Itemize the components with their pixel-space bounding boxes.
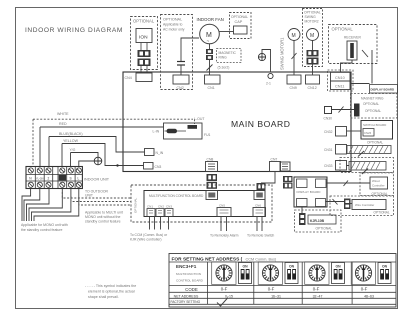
wires MF CN1 group down bbox=[150, 217, 169, 230]
multifunction control board bbox=[144, 191, 265, 217]
svg-text:CN12: CN12 bbox=[308, 86, 317, 90]
connector CN5 MF board bottom bbox=[217, 204, 231, 217]
svg-text:OPTIONAL: OPTIONAL bbox=[134, 197, 138, 213]
svg-text:To Remote Switch: To Remote Switch bbox=[247, 234, 274, 238]
svg-text:48~63: 48~63 bbox=[364, 294, 374, 298]
connector CN1 group MF board bottom bbox=[147, 205, 173, 217]
connector CN10 bbox=[331, 72, 351, 81]
wire display bottom left down bbox=[301, 207, 303, 213]
svg-text:MULTIFUNCTION: MULTIFUNCTION bbox=[176, 272, 201, 276]
svg-text:MULTIFUNCTION CONTROL BOARD: MULTIFUNCTION CONTROL BOARD bbox=[149, 194, 204, 198]
optional box swing motor2 bbox=[303, 9, 323, 67]
svg-text:OPTIONAL: OPTIONAL bbox=[367, 141, 383, 145]
wires dashed to multifunction box bbox=[62, 192, 131, 205]
svg-text:16~31: 16~31 bbox=[271, 294, 281, 298]
optional dashes around CN10 CN11 bbox=[328, 70, 354, 91]
svg-text:- - - - - This symbol indicate: - - - - - This symbol indicates the bbox=[85, 284, 136, 288]
svg-text:OPTIONAL: OPTIONAL bbox=[374, 211, 390, 215]
svg-text:CN2: CN2 bbox=[158, 205, 164, 209]
fuse box FU1 bbox=[164, 123, 211, 139]
wire CN32 to switch board bbox=[347, 130, 362, 132]
swing motor M3 bbox=[307, 29, 319, 41]
svg-text:CN5: CN5 bbox=[219, 204, 225, 208]
magnet ring component bbox=[354, 104, 360, 117]
svg-text:CN8: CN8 bbox=[207, 158, 214, 162]
svg-text:CN3: CN3 bbox=[155, 165, 162, 169]
connector CN11 bbox=[331, 81, 351, 90]
svg-text:0-F: 0-F bbox=[268, 287, 275, 292]
svg-text:OPTIONAL: OPTIONAL bbox=[163, 18, 182, 22]
svg-text:BLUE(BLACK): BLUE(BLACK) bbox=[59, 132, 83, 136]
svg-text:N_IN: N_IN bbox=[156, 151, 164, 155]
svg-text:RED: RED bbox=[59, 122, 67, 126]
svg-text:CN32: CN32 bbox=[324, 130, 333, 134]
connector on display board bottom right bbox=[316, 199, 326, 207]
svg-text:the standby control feature: the standby control feature bbox=[21, 228, 62, 232]
svg-text:CAP: CAP bbox=[235, 20, 243, 24]
svg-text:FACTORY SETTING: FACTORY SETTING bbox=[171, 300, 201, 304]
svg-text:OPTIONAL: OPTIONAL bbox=[316, 227, 333, 231]
svg-text:CN10: CN10 bbox=[335, 76, 345, 80]
rotary switch S5 bbox=[305, 262, 329, 285]
wire fan M to capacitor C1 bbox=[181, 38, 199, 61]
earth symbol at terminal bbox=[92, 153, 102, 165]
main board U100 outline bbox=[123, 72, 351, 172]
wire receiver right branch bbox=[362, 50, 372, 84]
svg-text:CODE: CODE bbox=[185, 287, 198, 292]
svg-text:DISPLAY BOARD: DISPLAY BOARD bbox=[297, 190, 322, 194]
terminal screws bottom row bbox=[28, 182, 81, 187]
wires from terminal block down bbox=[22, 189, 79, 222]
indoor fan motor M1 bbox=[200, 24, 220, 44]
wire WHITE (dashed optional) bbox=[33, 112, 205, 167]
svg-text:FOR SETTING NET ADDRESS (: FOR SETTING NET ADDRESS ( bbox=[172, 256, 243, 262]
svg-text:S: S bbox=[70, 177, 72, 181]
svg-text:2: 2 bbox=[48, 177, 50, 181]
svg-text:L: L bbox=[78, 177, 80, 181]
connector plug to display board bbox=[283, 176, 293, 189]
label to CCM bbox=[130, 233, 168, 242]
wire swing1 to CN9 bbox=[292, 41, 297, 76]
connector plug display cable bbox=[299, 213, 306, 225]
svg-text:MAGNET RING: MAGNET RING bbox=[361, 97, 384, 101]
table row CODE bbox=[185, 287, 367, 292]
shielded cable CN33 bbox=[347, 162, 387, 175]
connector plug swing2 bbox=[307, 50, 319, 65]
terminal labels row bbox=[29, 175, 79, 181]
wire display bottom right arrow bbox=[326, 199, 345, 205]
connector on display board bottom left bbox=[297, 199, 308, 207]
svg-text:0-F: 0-F bbox=[361, 287, 368, 292]
svg-text:L-IN: L-IN bbox=[153, 130, 160, 134]
optional box wired controller cable bbox=[340, 158, 394, 196]
svg-text:ON: ON bbox=[242, 265, 248, 269]
svg-text:YL-GN: YL-GN bbox=[36, 177, 44, 180]
wire display to wired controller bbox=[326, 181, 370, 187]
svg-text:MOTOR2: MOTOR2 bbox=[305, 20, 319, 24]
wire CN11 to display label bbox=[350, 83, 370, 85]
svg-text:OPTIONAL: OPTIONAL bbox=[363, 102, 379, 106]
svg-text:RECEIVER: RECEIVER bbox=[344, 36, 361, 40]
svg-text:FU1: FU1 bbox=[204, 133, 211, 137]
magnetic ring optional note bbox=[217, 49, 242, 63]
wire ION to plug bbox=[141, 43, 147, 51]
optional box magnet ring right bbox=[351, 94, 398, 119]
svg-text:CN3: CN3 bbox=[166, 205, 172, 209]
svg-text:INDOOR FAN: INDOOR FAN bbox=[197, 17, 224, 22]
svg-text:Y/G: Y/G bbox=[70, 148, 76, 152]
svg-text:OPTIONAL: OPTIONAL bbox=[365, 109, 381, 113]
wire Y/G to earth bbox=[70, 148, 95, 167]
svg-text:L-OUT: L-OUT bbox=[194, 117, 205, 121]
connector on display board top right bbox=[316, 179, 327, 188]
connector CN32 on main board bbox=[324, 127, 347, 137]
svg-text:element is optional,the actual: element is optional,the actual bbox=[88, 290, 135, 294]
svg-text:0-F: 0-F bbox=[313, 287, 320, 292]
connector plug MF right bbox=[257, 183, 266, 190]
connector CN6 MF board bottom bbox=[253, 204, 266, 217]
svg-text:OPTIONAL: OPTIONAL bbox=[304, 11, 321, 15]
svg-text:MAIN BOARD: MAIN BOARD bbox=[231, 119, 290, 129]
svg-text:Wired: Wired bbox=[372, 179, 380, 183]
svg-text:KJR (Wire controller): KJR (Wire controller) bbox=[130, 238, 161, 242]
svg-text:MAGNETIC: MAGNETIC bbox=[219, 51, 237, 55]
wire CN7 to MF plug bbox=[261, 172, 275, 184]
svg-text:CN30: CN30 bbox=[324, 117, 333, 121]
switch board bbox=[361, 121, 393, 140]
svg-text:SWITCH BOARD: SWITCH BOARD bbox=[363, 123, 387, 127]
svg-text:standby control feature: standby control feature bbox=[85, 220, 121, 224]
svg-text:CN1: CN1 bbox=[208, 86, 215, 90]
svg-text:ENC3+F1: ENC3+F1 bbox=[176, 264, 197, 269]
connector CN31 on main board bbox=[324, 145, 347, 155]
table row FACTORY SETTING bbox=[171, 298, 229, 307]
shielded cable display bbox=[308, 215, 336, 224]
wire earth to board terminal bbox=[262, 50, 271, 73]
shielded cable CN31 bbox=[347, 146, 392, 157]
connector plug fan inline bbox=[206, 49, 213, 60]
svg-text:0~15: 0~15 bbox=[225, 294, 233, 298]
svg-text:CN11: CN11 bbox=[335, 85, 344, 89]
optional box receiver top right bbox=[329, 25, 378, 64]
wire swing2 to plug bbox=[312, 41, 314, 51]
multifunction dashed enclosure bbox=[131, 185, 272, 222]
svg-text:CN6: CN6 bbox=[255, 204, 261, 208]
svg-text:OPTIONAL: OPTIONAL bbox=[231, 15, 248, 19]
svg-text:OPTIONAL: OPTIONAL bbox=[332, 27, 354, 32]
svg-text:CN7: CN7 bbox=[271, 158, 278, 162]
svg-text:Applicable for MONO unit with: Applicable for MONO unit with bbox=[21, 223, 68, 227]
receiver component bbox=[347, 41, 357, 60]
connector CN9b on main board bottom bbox=[270, 158, 281, 172]
svg-text:CN2: CN2 bbox=[177, 86, 184, 90]
svg-text:2-1: 2-1 bbox=[266, 82, 271, 86]
table cell ENC3+F1 bbox=[176, 264, 204, 283]
connector CN2 on main board bbox=[173, 75, 189, 90]
svg-text:To CCM (Comm. Bus) or: To CCM (Comm. Bus) or bbox=[130, 233, 168, 237]
connector CN21 on MF board top bbox=[206, 191, 218, 200]
svg-text:To Remotely Alarm: To Remotely Alarm bbox=[210, 234, 239, 238]
connector CN22 on MF board top bbox=[254, 191, 265, 200]
terminal screws top row bbox=[28, 168, 81, 173]
connector on display board top left bbox=[297, 179, 308, 188]
svg-text:CN33: CN33 bbox=[324, 164, 333, 168]
connector N_IN bbox=[145, 149, 164, 156]
svg-text:MONO unit without the: MONO unit without the bbox=[85, 215, 120, 219]
label to outdoor unit bbox=[85, 190, 108, 198]
wire fan M to CAP bbox=[219, 31, 233, 33]
dip switch S6 bbox=[332, 263, 345, 284]
svg-text:CN9: CN9 bbox=[290, 86, 297, 90]
svg-text:CN1: CN1 bbox=[147, 205, 153, 209]
magnetic ring on fan wire bbox=[207, 60, 213, 75]
svg-text:CN31: CN31 bbox=[324, 148, 333, 152]
svg-text:SWING: SWING bbox=[305, 15, 317, 19]
table header bbox=[169, 256, 396, 262]
optional box display cable bbox=[295, 210, 342, 232]
svg-text:OPTIONAL: OPTIONAL bbox=[133, 19, 155, 24]
table row NET ADDRESS bbox=[174, 294, 374, 298]
wire YELLOW to CN3 bbox=[62, 139, 144, 167]
optional box ION generator bbox=[131, 17, 158, 70]
optional box AC motor cap note bbox=[161, 15, 193, 90]
wire plug to CN12 bbox=[312, 65, 314, 76]
svg-text:OPTIONAL: OPTIONAL bbox=[372, 192, 388, 196]
wired controller box bbox=[370, 177, 388, 189]
svg-text:0-F: 0-F bbox=[221, 287, 228, 292]
wire plug to wire controller bbox=[351, 203, 353, 205]
svg-text:CN26: CN26 bbox=[364, 131, 372, 135]
jumper block main board bottom right bbox=[280, 162, 290, 171]
svg-text:Applicable to MULTI unit: Applicable to MULTI unit bbox=[85, 211, 123, 215]
rotary switch S1 bbox=[212, 262, 236, 285]
svg-text:SWING MOTOR1: SWING MOTOR1 bbox=[280, 37, 285, 70]
optional box fan capacitor CAP bbox=[230, 13, 252, 39]
dip switch S2 bbox=[239, 263, 252, 284]
connector CN8 on main board bottom bbox=[206, 158, 218, 172]
dip switch S4 bbox=[285, 263, 298, 284]
connector CN1 on main board bbox=[205, 75, 221, 90]
svg-text:Controller: Controller bbox=[372, 184, 385, 188]
svg-text:DISPLAY BOARD: DISPLAY BOARD bbox=[371, 88, 395, 92]
dip switch S8 bbox=[378, 263, 391, 284]
wires MF CN5 down bbox=[221, 217, 227, 232]
earth symbol chassis bbox=[258, 53, 265, 60]
ION module bbox=[136, 29, 152, 43]
note applicable mono with standby bbox=[21, 223, 68, 232]
svg-text:KJR-10B: KJR-10B bbox=[310, 219, 325, 223]
svg-text:AC motor only: AC motor only bbox=[163, 28, 185, 32]
connector CN3 bbox=[144, 163, 162, 170]
svg-text:INDOOR UNIT: INDOOR UNIT bbox=[84, 178, 110, 182]
display board section label box bbox=[370, 85, 398, 94]
wires MF CN6 down bbox=[257, 217, 262, 232]
terminal 2-1 on board bbox=[266, 73, 273, 85]
connector CN4 on main board bbox=[125, 73, 153, 82]
svg-text:ION: ION bbox=[139, 35, 148, 41]
optional box wire controller bottom bbox=[330, 196, 394, 216]
wire CN30 to magnet ring bbox=[332, 107, 355, 113]
terminal block XT1 bbox=[26, 167, 82, 189]
svg-text:~: ~ bbox=[207, 39, 210, 44]
svg-text:32~47: 32~47 bbox=[313, 294, 323, 298]
svg-text:Wire Controller: Wire Controller bbox=[355, 203, 374, 207]
wire fan M down bbox=[209, 44, 211, 49]
svg-text:WHITE: WHITE bbox=[57, 112, 69, 116]
wire controller box bbox=[352, 200, 386, 210]
swing motor M2 bbox=[288, 29, 300, 41]
svg-text:M: M bbox=[292, 33, 296, 39]
wire plug to CN4 bbox=[141, 66, 147, 73]
svg-text:UNIT: UNIT bbox=[85, 194, 93, 198]
svg-text:NET ADDRESS: NET ADDRESS bbox=[174, 294, 199, 298]
svg-text:shape shall prevail.: shape shall prevail. bbox=[88, 295, 119, 299]
wire BLUE(BLACK) to N_IN bbox=[49, 132, 145, 167]
svg-text:M: M bbox=[310, 33, 314, 39]
svg-text:CONTROL BOARD: CONTROL BOARD bbox=[176, 279, 204, 283]
svg-text:INDOOR WIRING DIAGRAM: INDOOR WIRING DIAGRAM bbox=[25, 27, 123, 34]
svg-text:(5.3or2): (5.3or2) bbox=[218, 66, 230, 70]
rotary switch S7 bbox=[351, 262, 375, 285]
wire RED bbox=[40, 122, 164, 167]
connector CN9 on main board bbox=[287, 75, 301, 90]
svg-text:CN4: CN4 bbox=[125, 76, 132, 80]
connector CN33 on main board bbox=[324, 161, 347, 171]
table grid lines bbox=[169, 262, 396, 304]
display board bbox=[294, 177, 327, 207]
wire receiver to CN10 bbox=[341, 60, 353, 72]
note optional symbol meaning bbox=[85, 284, 136, 299]
svg-text:YELLOW: YELLOW bbox=[63, 139, 79, 143]
svg-text:CCM Comm. Bus): CCM Comm. Bus) bbox=[246, 257, 278, 261]
svg-text:Applicable to: Applicable to bbox=[163, 23, 183, 27]
connector plug wire controller bbox=[344, 199, 351, 210]
connector plug CN8 to MF board bbox=[207, 174, 218, 189]
connector CN12 on main board bbox=[306, 75, 320, 90]
svg-text:RING: RING bbox=[219, 56, 228, 60]
connector plug ION (male/female) bbox=[138, 50, 151, 66]
rotary switch S3 bbox=[258, 262, 282, 285]
address table frame bbox=[169, 254, 396, 308]
connector CN30 on main board bbox=[324, 107, 333, 121]
note applicable multi without standby bbox=[85, 211, 123, 224]
capacitor C1 bbox=[177, 62, 185, 76]
